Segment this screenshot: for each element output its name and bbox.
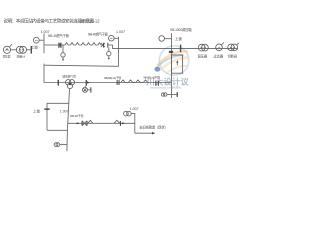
svg-text:1.007: 1.007 <box>130 107 139 111</box>
svg-text:上锁: 上锁 <box>33 109 40 114</box>
svg-text:XB-1300调压箱: XB-1300调压箱 <box>170 27 192 32</box>
svg-text:城市燃气管: 城市燃气管 <box>62 73 76 78</box>
svg-text:过滤器: 过滤器 <box>214 54 224 59</box>
svg-text:1.007: 1.007 <box>60 110 69 114</box>
svg-text:NB-40燃气干管: NB-40燃气干管 <box>88 32 108 37</box>
svg-text:切断阀: 切断阀 <box>228 54 238 59</box>
svg-text:调压器: 调压器 <box>198 54 208 59</box>
svg-text:1.007: 1.007 <box>116 30 125 34</box>
svg-text:上锁: 上锁 <box>175 36 182 41</box>
svg-text:NB-40(L×2) 干管: NB-40(L×2) 干管 <box>104 75 122 80</box>
svg-text:流量计: 流量计 <box>16 54 25 59</box>
svg-text:上锁: 上锁 <box>31 44 38 49</box>
svg-text:去旧线管道（现状）: 去旧线管道（现状） <box>139 124 167 129</box>
svg-text:NB-40燃气干管: NB-40燃气干管 <box>48 33 69 38</box>
svg-text:NB-40干管: NB-40干管 <box>70 113 84 118</box>
svg-text:调压器: 调压器 <box>3 55 11 59</box>
svg-text:XB-40(L×2)干管: XB-40(L×2)干管 <box>143 75 160 80</box>
svg-text:bangongziyuan·com专利所有: bangongziyuan·com专利所有 <box>150 85 181 89</box>
